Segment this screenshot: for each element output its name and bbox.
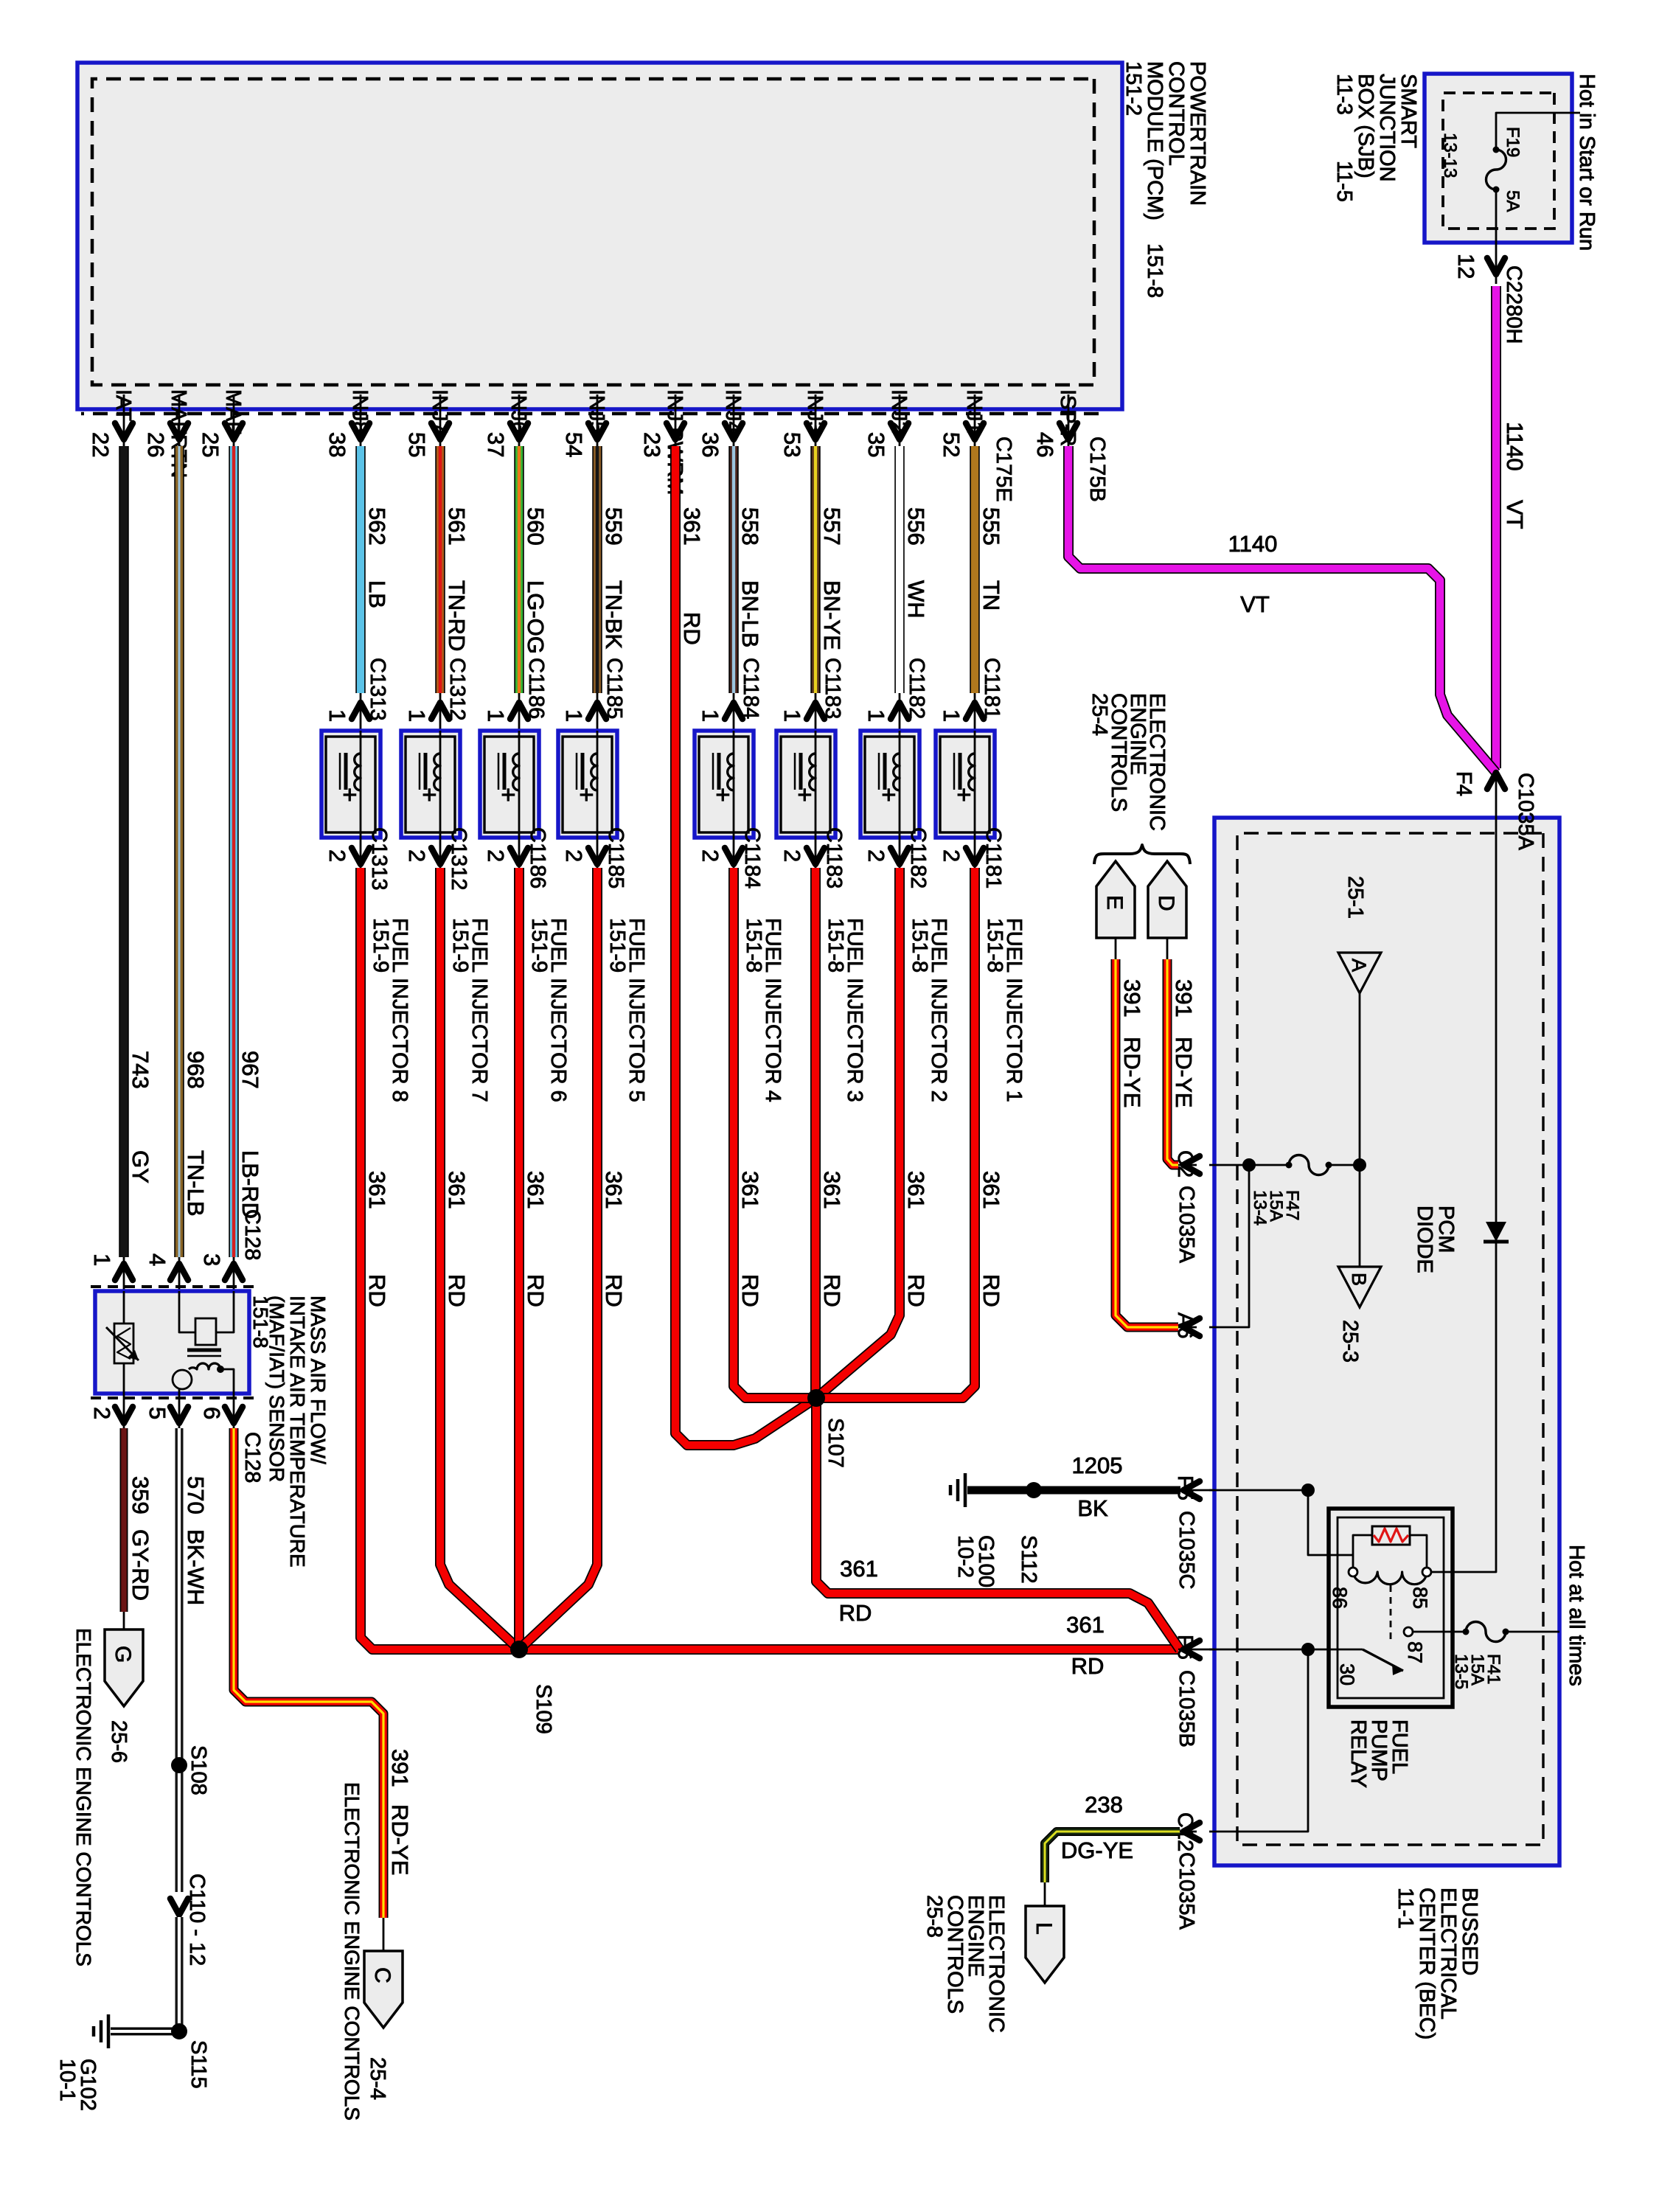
svg-text:11-1: 11-1 [1394, 1888, 1417, 1929]
wire 570 BK-WH from MAF pin 5 [175, 1428, 184, 1892]
wire 391 RD-YE labels (D) [1171, 979, 1197, 1107]
wire 561 TN-RD labels [444, 507, 470, 651]
splice S108 [171, 1757, 187, 1773]
wire 361 RD labels near F6 [1066, 1612, 1105, 1679]
wire from 87 to fuse F41 [1413, 1631, 1466, 1633]
svg-text:52: 52 [939, 432, 964, 457]
svg-text:D: D [1154, 895, 1178, 911]
relay coil resistor [1372, 1526, 1410, 1545]
svg-text:RD: RD [364, 1274, 390, 1307]
svg-text:+: + [335, 787, 364, 802]
svg-text:25-3: 25-3 [1338, 1320, 1362, 1363]
svg-text:C128: C128 [240, 1432, 264, 1483]
svg-text:S109: S109 [532, 1684, 555, 1734]
svg-text:C1181: C1181 [981, 827, 1005, 888]
svg-text:968: 968 [183, 1051, 209, 1089]
wire 561 TN-RD (INJ7) [435, 446, 445, 693]
PCM pin INJ1 (52) [939, 389, 986, 457]
relay pin 85 terminal [1422, 1568, 1431, 1576]
svg-text:C1184: C1184 [739, 658, 762, 719]
svg-text:RD: RD [903, 1274, 929, 1307]
svg-text:WH: WH [903, 580, 929, 619]
wire 361 RD labels [364, 1171, 390, 1307]
svg-text:RD: RD [679, 612, 705, 645]
wire 361 RD labels [601, 1171, 627, 1307]
wire 570 BK-WH labels [183, 1476, 209, 1605]
svg-text:POWERTRAIN: POWERTRAIN [1186, 61, 1209, 206]
svg-text:13-13: 13-13 [1440, 133, 1460, 178]
svg-text:361: 361 [978, 1171, 1004, 1209]
svg-text:11-3: 11-3 [1332, 74, 1356, 115]
svg-text:1: 1 [698, 709, 723, 722]
svg-text:2: 2 [89, 1407, 115, 1419]
MAF sensing element circuit [216, 1291, 234, 1332]
svg-text:LB: LB [364, 580, 390, 608]
wire 557 BN-YE (INJ3) [810, 446, 821, 693]
connector arrow MAF pin 2 [123, 1394, 125, 1428]
svg-text:1140: 1140 [1228, 531, 1278, 557]
BEC wire from F6 to relay pin 30 and C12 [1209, 1649, 1363, 1832]
svg-text:S107: S107 [824, 1418, 847, 1468]
PCM pin INJ4 (36) [698, 389, 745, 457]
svg-text:C1183: C1183 [821, 658, 844, 719]
connector arrow pin 2 of injector 1 [974, 838, 976, 868]
svg-text:MASS AIR FLOW/: MASS AIR FLOW/ [307, 1295, 330, 1464]
wire 570 BK-WH branch to G102 [111, 2028, 179, 2036]
wire 361 RD from injector 3 to S107 [810, 868, 821, 1398]
connector arrow pin 2 of injector 7 [439, 838, 442, 868]
wire from F4 through PCM diode to relay pin 85 [1430, 818, 1496, 1572]
svg-text:6: 6 [199, 1407, 225, 1419]
ELECTRONIC ENGINE CONTROLS 25-4 label (D/E) [1088, 693, 1169, 831]
svg-text:DG-YE: DG-YE [1061, 1837, 1133, 1863]
wire 361 RD labels near S107 branch [839, 1556, 878, 1626]
svg-text:C1312: C1312 [447, 827, 470, 890]
injector 4 coil symbol [733, 731, 735, 838]
svg-text:RD-YE: RD-YE [1119, 1037, 1145, 1107]
svg-text:85: 85 [1409, 1587, 1431, 1609]
SJB dashed inner border [1443, 93, 1554, 229]
wire from A to F47 junction to B [1359, 993, 1361, 1267]
svg-text:TN-BK: TN-BK [601, 580, 627, 649]
connector arrow F4 C1035A [1495, 773, 1498, 818]
wire 391 RD-YE from MAF pin 6 to C [234, 1428, 383, 1918]
connector arrow pin 2 of injector 2 [899, 838, 901, 868]
svg-text:556: 556 [903, 507, 929, 546]
svg-text:RD: RD [839, 1600, 872, 1626]
svg-text:361: 361 [601, 1171, 627, 1209]
svg-text:11-5: 11-5 [1332, 161, 1356, 202]
svg-text:25-1: 25-1 [1343, 876, 1367, 919]
fuel injector 6 box [480, 731, 539, 838]
svg-text:361: 361 [523, 1171, 549, 1209]
svg-text:238: 238 [1085, 1792, 1123, 1818]
svg-text:CONTROL: CONTROL [1164, 61, 1188, 166]
fuel injector 4 box [695, 731, 754, 838]
svg-text:MODULE (PCM): MODULE (PCM) [1143, 61, 1166, 220]
svg-text:1: 1 [939, 709, 964, 722]
wire 570 BK-WH after C110 [175, 1917, 184, 2031]
svg-text:151-8: 151-8 [1143, 243, 1166, 298]
PCM box (POWERTRAIN CONTROL MODULE) [77, 63, 1122, 409]
svg-text:C1181: C1181 [980, 658, 1004, 719]
connector arrow MAF pin 4 [178, 1257, 181, 1291]
svg-text:25-6: 25-6 [107, 1720, 131, 1763]
svg-text:35: 35 [863, 432, 889, 457]
MAF/IAT label [249, 1295, 330, 1568]
svg-text:RD: RD [819, 1274, 845, 1307]
svg-text:C128: C128 [240, 1209, 264, 1260]
label FUEL INJECTOR 3 [824, 918, 866, 1102]
connector arrow pin 1 of injector 3 [815, 693, 817, 731]
wire 559 TN-BK (INJ5) [592, 446, 602, 693]
fuse F19 5A [1486, 150, 1506, 189]
wire 556 WH labels [903, 507, 929, 619]
PCM pin ISP-R (46) [1032, 389, 1079, 457]
connector C [364, 1951, 403, 2028]
svg-text:967: 967 [237, 1051, 263, 1089]
PCM pin INJ5 (54) [561, 389, 608, 457]
connector arrow pin 2 of injector 5 [597, 838, 599, 868]
PCM pin INJ8 (38) [324, 389, 372, 457]
svg-text:361: 361 [737, 1171, 763, 1209]
svg-text:TN-LB: TN-LB [183, 1150, 209, 1217]
svg-text:CENTER (BEC): CENTER (BEC) [1415, 1888, 1439, 2039]
injector 3 coil symbol [815, 731, 817, 838]
PCM pin INJ2 (35) [863, 389, 911, 457]
SMART JUNCTION BOX (SJB) [1425, 74, 1572, 243]
splice S112 [1026, 1482, 1042, 1498]
label FUEL INJECTOR 6 [527, 918, 570, 1102]
BEC label [1394, 1888, 1481, 2039]
svg-text:C2280H: C2280H [1502, 265, 1526, 344]
svg-text:37: 37 [483, 432, 509, 457]
svg-text:RD: RD [444, 1274, 470, 1307]
PCM pin MAFRTN (26) [143, 389, 190, 478]
svg-text:391: 391 [1119, 979, 1145, 1018]
svg-text:C110 - 12: C110 - 12 [185, 1874, 209, 1966]
inline connector C110-12 [170, 1899, 188, 1915]
connector D [1148, 861, 1186, 938]
PCM pin INJ PWRM (23) [639, 389, 686, 495]
svg-text:151-8: 151-8 [742, 918, 765, 973]
connector arrow pin 2 of injector 8 [360, 838, 362, 868]
svg-text:+: + [494, 787, 522, 802]
wire 361 RD from injector 7 to S109 [440, 868, 519, 1649]
svg-text:C1035A: C1035A [1175, 1852, 1198, 1930]
F41 labels [1451, 1654, 1503, 1689]
relay pin 86 terminal [1349, 1568, 1357, 1576]
svg-text:151-9: 151-9 [605, 918, 629, 973]
svg-text:2: 2 [483, 849, 509, 862]
PCM diode [1486, 1222, 1506, 1242]
fuse F47 15A (vertical) [1329, 1164, 1360, 1166]
wire 359 GY-RD labels [128, 1476, 153, 1601]
svg-text:Hot in Start or Run: Hot in Start or Run [1575, 74, 1599, 251]
G102 10-1 label [55, 2059, 100, 2111]
SJB label [1332, 74, 1420, 202]
svg-text:RD: RD [1071, 1653, 1105, 1679]
svg-text:2: 2 [698, 849, 723, 862]
svg-text:ELECTRONIC ENGINE CONTROLS: ELECTRONIC ENGINE CONTROLS [341, 1782, 364, 2121]
svg-text:VT: VT [1240, 591, 1270, 617]
svg-text:359: 359 [128, 1476, 153, 1514]
wire 558 BN-LB (INJ4) [728, 446, 739, 693]
wire 562 LB labels [364, 507, 390, 608]
svg-text:1205: 1205 [1072, 1453, 1123, 1478]
label FUEL INJECTOR 1 [983, 918, 1026, 1102]
svg-text:F4: F4 [1452, 771, 1475, 796]
svg-text:BK-WH: BK-WH [183, 1529, 209, 1605]
wire 238 DG-YE from C12 to L [1178, 1831, 1197, 1833]
svg-text:LG-OG: LG-OG [523, 580, 549, 654]
svg-text:46: 46 [1032, 432, 1058, 457]
svg-text:1: 1 [779, 709, 805, 722]
svg-text:86: 86 [1329, 1587, 1351, 1609]
wire 361 RD labels [903, 1171, 929, 1307]
svg-text:25-4: 25-4 [1088, 693, 1111, 736]
FUEL PUMP RELAY label [1346, 1719, 1411, 1788]
injector 7 coil symbol [439, 731, 442, 838]
svg-text:+: + [874, 787, 902, 802]
fuel injector 5 box [558, 731, 617, 838]
connector arrow MAF pin 5 [178, 1394, 181, 1428]
PCM dashed connector border [92, 79, 1094, 385]
F47 labels [1250, 1190, 1302, 1225]
wire 361 RD from injector 6 to S109 [514, 868, 524, 1649]
junction dot at F47 top [1353, 1158, 1366, 1172]
wire 361 RD labels [978, 1171, 1004, 1307]
wire 238 DG-YE labels [1061, 1792, 1133, 1863]
wire 361 RD from injector 4 to S107 [734, 868, 816, 1398]
wire from F19 to SJB edge pin 12 [1495, 189, 1498, 284]
ground G102 [107, 2014, 111, 2048]
svg-text:10-1: 10-1 [55, 2059, 79, 2101]
svg-text:RD-YE: RD-YE [387, 1804, 413, 1875]
svg-text:C175B: C175B [1085, 437, 1109, 502]
svg-text:E: E [1102, 895, 1127, 910]
relay coil winding [1353, 1572, 1427, 1585]
wire 1205 BK with ground G100 [967, 1486, 1180, 1495]
svg-text:C1035A: C1035A [1514, 773, 1537, 850]
svg-text:A: A [1348, 959, 1370, 972]
svg-text:F19: F19 [1503, 127, 1523, 157]
fuel injector 7 box [401, 731, 460, 838]
injector 8 coil symbol [360, 731, 362, 838]
injector 2 coil symbol [899, 731, 901, 838]
svg-text:1: 1 [863, 709, 889, 722]
F19 labels [1440, 127, 1523, 212]
connector arrow C12 C1035A [1183, 1823, 1200, 1840]
fuel injector 2 box [860, 731, 919, 838]
fuel pump relay outer box [1329, 1509, 1453, 1707]
triangle connector A [1338, 953, 1381, 993]
svg-text:391: 391 [387, 1749, 413, 1787]
fuel injector 1 box [936, 731, 995, 838]
label FUEL INJECTOR 8 [369, 918, 411, 1102]
wire 1205 BK labels [1072, 1453, 1123, 1521]
svg-text:4: 4 [145, 1253, 170, 1266]
fuel injector 3 box [776, 731, 835, 838]
svg-text:87: 87 [1404, 1641, 1426, 1663]
svg-text:557: 557 [819, 507, 845, 546]
injector 1 coil symbol [974, 731, 976, 838]
svg-text:151-9: 151-9 [448, 918, 472, 973]
G100 10-2 label [953, 1535, 998, 1587]
connector arrow C2 C1035A [1183, 1156, 1200, 1174]
svg-text:361: 361 [444, 1171, 470, 1209]
connector L [1026, 1906, 1064, 1983]
connector arrow pin 2 of injector 3 [815, 838, 817, 868]
wire 1140 VT from SJB to BEC F4 (magenta) [1491, 286, 1501, 768]
svg-text:36: 36 [698, 432, 723, 457]
PCM outer dashed connector line [81, 412, 1099, 416]
svg-text:+: + [950, 787, 978, 802]
BUSSED ELECTRICAL CENTER (BEC) box [1214, 818, 1559, 1865]
svg-text:55: 55 [404, 432, 430, 457]
wire 391 RD-YE labels (C) [387, 1749, 413, 1875]
svg-text:C: C [370, 1967, 394, 1983]
svg-text:ELECTRONIC ENGINE CONTROLS: ELECTRONIC ENGINE CONTROLS [72, 1628, 95, 1966]
svg-text:151-8: 151-8 [824, 918, 847, 973]
svg-text:391: 391 [1171, 979, 1197, 1018]
wire 1140 VT from PCM ISP-R to BEC F4 [1068, 446, 1496, 773]
relay switch arm (pin 30) [1363, 1649, 1403, 1671]
wire 557 BN-YE labels [819, 507, 845, 650]
svg-text:5: 5 [145, 1407, 170, 1419]
svg-text:S112: S112 [1017, 1535, 1040, 1584]
svg-text:ELECTRICAL: ELECTRICAL [1436, 1888, 1460, 2020]
svg-text:151-9: 151-9 [369, 918, 392, 973]
svg-text:22: 22 [88, 432, 114, 457]
wire 391 RD-YE from D to C2 [1166, 938, 1169, 959]
fuel injector 8 box [321, 731, 380, 838]
wire 968 TN-LB (MAFRTN) [174, 446, 184, 1257]
svg-text:1: 1 [404, 709, 430, 722]
svg-text:C1035B: C1035B [1175, 1670, 1198, 1747]
svg-text:2: 2 [863, 849, 889, 862]
connector arrow pin 1 of injector 1 [974, 693, 976, 731]
svg-text:Hot at all times: Hot at all times [1565, 1545, 1588, 1686]
svg-text:560: 560 [523, 507, 549, 546]
relay pin 87 contact [1404, 1627, 1413, 1636]
wire 743 GY (IAT) [119, 446, 129, 1257]
svg-text:C1186: C1186 [524, 658, 548, 719]
injector 6 coil symbol [518, 731, 521, 838]
svg-text:25: 25 [198, 432, 223, 457]
PCM pin INJ7 (55) [404, 389, 451, 457]
connector arrow F5 C1035C [1183, 1481, 1200, 1499]
wire 361 RD from injector 8 to S109 to BEC F6 [361, 868, 1178, 1649]
connector arrow MAF pin 1 [123, 1257, 125, 1291]
svg-text:RD: RD [523, 1274, 549, 1307]
connector arrow pin 2 of injector 4 [733, 838, 735, 868]
wire 558 BN-LB labels [737, 507, 763, 647]
svg-text:C1182: C1182 [906, 827, 930, 888]
connector arrow MAF pin 6 [233, 1394, 235, 1428]
svg-text:BN-LB: BN-LB [737, 580, 763, 647]
wire 559 TN-BK labels [601, 507, 627, 649]
wire 361 RD labels [444, 1171, 470, 1307]
label FUEL INJECTOR 5 [605, 918, 648, 1102]
wire 361 RD from injector 2 to S107 [816, 868, 900, 1398]
splice S115 [171, 2023, 187, 2039]
svg-text:C1184: C1184 [740, 827, 764, 888]
svg-text:1: 1 [483, 709, 509, 722]
MAF/IAT sensor box [95, 1291, 249, 1394]
wire 361 RD labels [737, 1171, 763, 1307]
svg-text:DIODE: DIODE [1413, 1206, 1436, 1273]
svg-text:361: 361 [840, 1556, 878, 1582]
svg-text:25-4: 25-4 [366, 2057, 389, 2100]
wire 361 RD from S107 to BEC F6 [816, 1398, 1180, 1649]
svg-text:JUNCTION: JUNCTION [1375, 74, 1399, 182]
svg-text:2: 2 [939, 849, 964, 862]
svg-text:RELAY: RELAY [1346, 1719, 1370, 1788]
svg-text:G: G [111, 1646, 135, 1663]
svg-text:C1035C: C1035C [1175, 1511, 1198, 1589]
svg-text:361: 361 [1066, 1612, 1105, 1638]
svg-text:559: 559 [601, 507, 627, 546]
svg-text:C175E: C175E [992, 437, 1015, 502]
wire 391 RD-YE labels (E) [1119, 979, 1145, 1107]
IAT thermistor symbol [123, 1291, 125, 1394]
svg-text:+: + [709, 787, 737, 802]
svg-text:C1183: C1183 [822, 827, 846, 888]
svg-text:2: 2 [324, 849, 350, 862]
svg-text:361: 361 [679, 507, 705, 546]
svg-text:558: 558 [737, 507, 763, 546]
svg-text:562: 562 [364, 507, 390, 546]
svg-text:C1035A: C1035A [1175, 1186, 1198, 1263]
wire 391 RD-YE from E to A6 [1115, 938, 1117, 959]
wire 967 LB-RD labels [237, 1051, 263, 1219]
wire 361 RD INJ PWRM to S107 [675, 446, 816, 1445]
BEC wire from F5 to relay coil 86 [1209, 1490, 1353, 1555]
svg-text:151-8: 151-8 [908, 918, 931, 973]
wire 555 TN (INJ1) [970, 446, 980, 693]
wire 361 RD labels [819, 1171, 845, 1307]
label FUEL INJECTOR 4 [742, 918, 785, 1102]
wire from F47 junction to C2 and A6 [1209, 1165, 1249, 1327]
svg-text:555: 555 [978, 507, 1004, 546]
svg-text:12: 12 [1453, 254, 1479, 279]
svg-text:SMART: SMART [1397, 74, 1420, 148]
svg-text:VT: VT [1502, 500, 1528, 529]
svg-text:30: 30 [1336, 1663, 1358, 1686]
junction dot F6 branch [1301, 1643, 1315, 1656]
fuel pump relay inner box [1338, 1517, 1444, 1698]
wire 562 LB (INJ8) [355, 446, 366, 693]
svg-text:5A: 5A [1503, 190, 1523, 212]
svg-text:C1313: C1313 [367, 827, 391, 890]
svg-text:1140: 1140 [1502, 422, 1528, 471]
MAF dashed connector line left [91, 1285, 254, 1288]
svg-text:F6: F6 [1173, 1635, 1197, 1660]
svg-text:151-9: 151-9 [527, 918, 551, 973]
wire from Hot in Start or Run into SJB [1496, 113, 1580, 150]
connector arrow pin 1 of injector 4 [733, 693, 735, 731]
svg-text:S108: S108 [187, 1745, 210, 1795]
wire 743 GY labels [128, 1051, 153, 1183]
svg-text:1: 1 [89, 1253, 115, 1266]
wire 359 GY-RD from MAF pin 2 to G [120, 1428, 128, 1612]
svg-text:PCM: PCM [1434, 1206, 1458, 1253]
BEC dashed inner border [1237, 833, 1543, 1845]
wire 361 RD from injector 5 to S109 [519, 868, 597, 1649]
svg-text:561: 561 [444, 507, 470, 546]
splice S107 [807, 1389, 825, 1407]
